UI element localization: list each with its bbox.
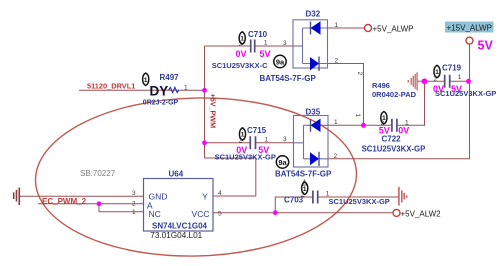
svg-text:1: 1: [335, 22, 339, 29]
svg-text:9a: 9a: [276, 57, 285, 66]
svg-text:SC1U25V3KX-C: SC1U25V3KX-C: [212, 61, 268, 70]
svg-text:+5V_ALW2: +5V_ALW2: [401, 210, 442, 219]
svg-text:DY: DY: [150, 84, 169, 99]
svg-text:C719: C719: [442, 64, 462, 73]
svg-text:1: 1: [382, 115, 386, 122]
svg-text:2: 2: [132, 200, 136, 207]
svg-text:1: 1: [240, 36, 244, 43]
svg-text:1: 1: [241, 132, 245, 139]
svg-text:73.01G04.L01: 73.01G04.L01: [150, 231, 202, 240]
svg-text:+5V_PWM: +5V_PWM: [208, 94, 217, 129]
svg-text:C710: C710: [248, 30, 268, 39]
svg-text:3: 3: [132, 190, 136, 197]
svg-text:5V: 5V: [451, 84, 462, 94]
svg-text:Y: Y: [202, 192, 208, 202]
svg-text:0V: 0V: [433, 84, 444, 94]
svg-text:1: 1: [264, 39, 268, 46]
svg-text:5V: 5V: [478, 39, 494, 53]
svg-text:51120_DRVL1: 51120_DRVL1: [87, 82, 135, 91]
svg-text:+15V_ALWP: +15V_ALWP: [447, 24, 492, 33]
svg-text:BAT54S-7F-GP: BAT54S-7F-GP: [260, 74, 317, 83]
svg-text:R497: R497: [160, 73, 180, 82]
svg-text:4: 4: [218, 190, 222, 197]
svg-text:1: 1: [144, 77, 148, 84]
svg-text:+5V_ALWP: +5V_ALWP: [373, 24, 414, 33]
svg-text:3: 3: [283, 136, 287, 143]
svg-text:1: 1: [405, 120, 409, 127]
svg-text:1: 1: [334, 119, 338, 126]
svg-text:SC1U25V3KX-GP: SC1U25V3KX-GP: [435, 89, 496, 98]
svg-text:1: 1: [326, 190, 330, 197]
svg-text:2: 2: [334, 153, 338, 160]
svg-text:2: 2: [335, 58, 339, 65]
svg-text:C722: C722: [382, 135, 402, 144]
svg-text:0V: 0V: [236, 145, 247, 155]
svg-text:5V: 5V: [258, 145, 269, 155]
svg-text:R496: R496: [372, 81, 390, 90]
svg-text:C715: C715: [247, 126, 267, 135]
svg-text:1: 1: [354, 114, 361, 118]
svg-text:SN74LVC1G04: SN74LVC1G04: [152, 222, 208, 231]
svg-text:D35: D35: [306, 108, 321, 117]
svg-text:1: 1: [303, 186, 307, 193]
svg-text:0R0402-PAD: 0R0402-PAD: [372, 90, 417, 99]
svg-text:EC_PWM_2: EC_PWM_2: [42, 197, 87, 206]
svg-text:VCC: VCC: [192, 209, 210, 219]
svg-text:D32: D32: [306, 10, 321, 19]
svg-text:9a: 9a: [278, 158, 287, 167]
svg-text:1: 1: [265, 136, 269, 143]
svg-text:5V: 5V: [260, 49, 271, 59]
svg-text:U64: U64: [169, 170, 184, 179]
svg-text:5: 5: [218, 210, 222, 217]
svg-text:C703: C703: [284, 196, 304, 205]
svg-text:SB:70227: SB:70227: [80, 169, 116, 178]
svg-text:5V: 5V: [379, 125, 390, 135]
svg-text:0R2J-2-GP: 0R2J-2-GP: [143, 100, 179, 107]
svg-text:0V: 0V: [398, 125, 409, 135]
svg-text:2: 2: [356, 72, 363, 76]
svg-text:BAT54S-7F-GP: BAT54S-7F-GP: [275, 170, 332, 179]
svg-text:SC1U25V3KX-GP: SC1U25V3KX-GP: [329, 197, 390, 206]
svg-text:0V: 0V: [236, 49, 247, 59]
svg-text:SC1U25V3KX-GP: SC1U25V3KX-GP: [362, 145, 426, 154]
svg-text:1: 1: [184, 85, 188, 92]
svg-text:1: 1: [458, 74, 462, 81]
svg-text:3: 3: [283, 40, 287, 47]
svg-text:1: 1: [435, 69, 439, 76]
svg-text:1: 1: [132, 209, 136, 216]
svg-text:NC: NC: [149, 209, 161, 219]
